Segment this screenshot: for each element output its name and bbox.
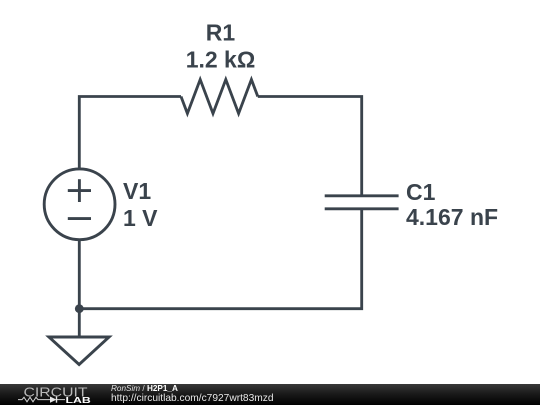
capacitor C1 [325,196,399,209]
resistor R1 [181,80,258,114]
svg-text:C1: C1 [406,179,436,205]
wire V1 bottom to junction [78,239,81,309]
svg-text:1 V: 1 V [123,205,158,231]
svg-text:LAB: LAB [66,396,92,405]
CircuitLab logo: resistor+diode glyph [18,397,65,402]
node junction dot [75,304,84,313]
svg-text:R1: R1 [206,20,236,46]
wire C1 bottom plate to junction with bottom-right corner [79,209,361,309]
svg-text:V1: V1 [123,178,151,204]
svg-text:1.2 kΩ: 1.2 kΩ [186,46,256,72]
ground [49,337,109,365]
wire resistor to C1 top plate with top-right corner [258,97,362,196]
wire junction to ground [78,309,81,337]
svg-text:RonSim / H2P1_A: RonSim / H2P1_A [111,384,178,393]
svg-text:4.167 nF: 4.167 nF [406,204,498,230]
voltage source V1 [44,169,115,240]
svg-text:http://circuitlab.com/c7927wrt: http://circuitlab.com/c7927wrt83mzd [111,393,274,404]
wire V1 top to top rail with top-left corner [79,97,181,170]
